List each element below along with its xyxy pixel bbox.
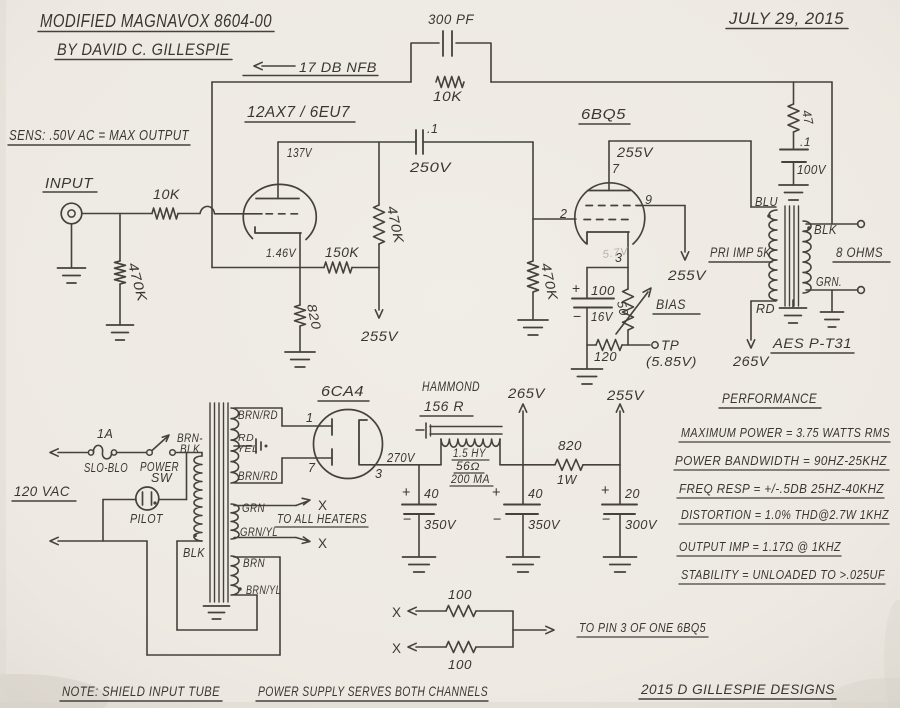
label 250V <box>409 160 453 175</box>
tube V1 plate bar <box>256 198 299 200</box>
label (5.85V) <box>646 354 697 369</box>
svg-text:BRN/RD: BRN/RD <box>238 469 278 483</box>
ground (speaker common) <box>821 312 844 327</box>
label 270V <box>386 451 416 465</box>
transformer T2 core <box>785 206 799 306</box>
wire X1 arrow <box>408 607 446 614</box>
svg-text:270V: 270V <box>386 451 416 465</box>
label 100 (R11) <box>448 588 472 602</box>
svg-text:20: 20 <box>624 487 640 501</box>
tube V1 plate lead <box>277 142 279 199</box>
svg-text:350V: 350V <box>528 517 561 532</box>
svg-text:NOTE: SHIELD INPUT TUBE: NOTE: SHIELD INPUT TUBE <box>62 683 220 699</box>
phase dot (rect heater) <box>238 587 241 590</box>
svg-text:MAXIMUM POWER = 3.75 WATTS RMS: MAXIMUM POWER = 3.75 WATTS RMS <box>681 425 890 440</box>
wire 47 to cap <box>793 132 795 149</box>
svg-text:156 R: 156 R <box>424 399 464 414</box>
svg-text:TO PIN 3 OF ONE 6BQ5: TO PIN 3 OF ONE 6BQ5 <box>579 620 706 635</box>
label .1 (zobel) <box>800 135 811 149</box>
transformer T1 core <box>210 403 228 602</box>
label 470K (6BQ5 grid) <box>538 262 561 303</box>
label DISTORTION <box>679 508 889 524</box>
label + (C5) <box>492 485 501 501</box>
tube V3 6CA4 envelope <box>314 410 383 479</box>
svg-text:YEL: YEL <box>237 443 258 455</box>
wire C6 to ground <box>619 514 621 556</box>
label TO PIN 3 OF ONE 6BQ5 <box>577 620 708 637</box>
label MAXIMUM POWER <box>679 425 890 442</box>
label SLO-BLO <box>84 461 128 475</box>
svg-text:+: + <box>572 280 581 296</box>
transformer T1 primary coil <box>194 456 202 541</box>
label TO ALL HEATERS <box>275 512 368 527</box>
phase dot (primary) <box>767 214 771 218</box>
svg-text:820: 820 <box>558 439 582 453</box>
svg-text:BY DAVID C. GILLESPIE: BY DAVID C. GILLESPIE <box>57 40 230 59</box>
resistor R3 470K plate zigzag <box>374 142 385 268</box>
label 300V (C6) <box>625 517 658 532</box>
subtitle text BY DAVID C. GILLESPIE <box>55 40 232 60</box>
wire cap2 tap <box>522 465 524 504</box>
label TP <box>661 338 679 353</box>
wire R12 to junction <box>476 646 513 648</box>
svg-text:7: 7 <box>308 461 316 475</box>
label 50 (pot) <box>614 300 631 317</box>
wire choke out to 820 <box>500 464 555 466</box>
svg-text:AES P-T31: AES P-T31 <box>772 336 852 351</box>
svg-text:STABILITY = UNLOADED TO >.025U: STABILITY = UNLOADED TO >.025UF <box>681 568 886 582</box>
svg-text:12AX7 / 6EU7: 12AX7 / 6EU7 <box>247 104 351 121</box>
wire pilot to mains low <box>103 500 136 542</box>
transformer T1 heater winding BRN <box>231 556 239 595</box>
wire 255V line to OPT primary <box>751 141 776 207</box>
svg-text:OUTPUT IMP = 1.17Ω @ 1KHZ: OUTPUT IMP = 1.17Ω @ 1KHZ <box>679 539 841 554</box>
label - (C5) <box>493 512 502 528</box>
svg-text:POWER BANDWIDTH = 90HZ-25KHZ: POWER BANDWIDTH = 90HZ-25KHZ <box>675 453 887 468</box>
svg-text:−: − <box>573 308 582 324</box>
label 100 <box>591 284 615 298</box>
svg-text:10K: 10K <box>433 89 463 104</box>
label RD <box>756 302 775 316</box>
label 137V <box>287 146 313 160</box>
svg-text:250V: 250V <box>409 160 453 175</box>
svg-text:SENS: .50V AC = MAX OUTPUT: SENS: .50V AC = MAX OUTPUT <box>9 128 190 144</box>
wire feedback loop box <box>411 43 491 82</box>
title text MODIFIED MAGNAVOX 8604-00 <box>38 10 274 32</box>
svg-text:1.5 HY: 1.5 HY <box>453 448 487 460</box>
ground (OPT core) <box>780 300 807 323</box>
label 100 (R12) <box>448 658 472 672</box>
svg-text:JULY 29, 2015: JULY 29, 2015 <box>728 9 844 28</box>
svg-text:300 PF: 300 PF <box>428 12 474 27</box>
wire 820 to ground <box>299 326 301 351</box>
capacitor C2 100uF plates <box>572 299 614 308</box>
wire C5 to ground <box>522 514 524 556</box>
svg-text:PILOT: PILOT <box>130 511 163 526</box>
svg-text:HAMMOND: HAMMOND <box>422 379 480 394</box>
svg-text:255V: 255V <box>606 387 645 403</box>
label 350V (C4) <box>424 517 457 532</box>
svg-text:−: − <box>602 512 611 528</box>
label 16V <box>591 310 614 324</box>
label 8 OHMS <box>833 245 890 262</box>
label GRN. <box>816 275 842 289</box>
wire BRN/YL bottom lead <box>234 594 257 596</box>
svg-text:150K: 150K <box>325 245 359 260</box>
label - (C6) <box>602 512 611 528</box>
label 255V (screen) <box>667 267 707 283</box>
label 20 (C6) <box>624 487 640 501</box>
capacitor C5 40uF plates <box>504 505 540 515</box>
svg-text:2015 D GILLESPIE DESIGNS: 2015 D GILLESPIE DESIGNS <box>640 681 835 697</box>
svg-text:3: 3 <box>375 467 382 481</box>
label 3 (pin) <box>615 251 622 265</box>
label 40 (C4) <box>424 487 439 501</box>
label 10K (NFB) <box>433 89 463 104</box>
wire C4 to ground <box>418 514 420 556</box>
svg-text:255V: 255V <box>667 267 707 283</box>
label BRN/RD (bottom) <box>238 469 278 483</box>
fuse F1 1A slo-blo <box>88 445 116 459</box>
lamp pilot <box>136 487 159 510</box>
wire V1 cathode lead <box>299 233 301 305</box>
choke L1 coil <box>441 439 500 465</box>
svg-text:6CA4: 6CA4 <box>321 383 364 400</box>
svg-text:265V: 265V <box>507 385 546 401</box>
capacitor C6 20uF plates <box>602 505 637 515</box>
svg-text:56Ω: 56Ω <box>456 461 480 473</box>
note 2015 D GILLESPIE DESIGNS <box>639 681 836 699</box>
label 470K (plate) <box>384 205 407 246</box>
label BLK <box>814 223 837 237</box>
label 255V (6BQ5 plate) <box>616 145 655 160</box>
svg-text:10K: 10K <box>153 187 181 202</box>
resistor R-NFB 10K zigzag <box>436 77 464 88</box>
label BLU <box>755 195 778 209</box>
svg-text:265V: 265V <box>732 353 770 369</box>
label 200 MA <box>450 474 493 486</box>
capacitor C3 .1 plates <box>780 150 808 163</box>
label BRN/RD (top) <box>238 408 278 422</box>
label 265V (B+) <box>507 385 546 401</box>
wire 265V riser <box>519 404 526 465</box>
label .1 (coupling) <box>427 122 438 136</box>
capacitor C1 .1 coupling plates <box>416 130 423 154</box>
note text SENS: .50V AC = MAX OUTPUT <box>8 128 190 145</box>
wire cap3 tap <box>619 465 621 504</box>
wire coupling to 6BQ5 grid <box>423 142 576 219</box>
label POWER SW <box>140 460 179 485</box>
label 156R <box>420 399 473 416</box>
label tube 12AX7/6EU7 <box>245 104 355 122</box>
label 120 <box>594 350 617 364</box>
wire NFB line left segment <box>212 81 411 83</box>
label X (GRN) <box>318 498 328 513</box>
label 820 <box>304 303 324 332</box>
resistor R12 100 zigzag <box>446 642 476 653</box>
svg-text:(5.85V): (5.85V) <box>646 354 697 369</box>
switch S1 power <box>147 435 176 455</box>
label 1 (pin) <box>306 411 313 425</box>
svg-text:100: 100 <box>448 588 472 602</box>
connector output terminal common <box>858 287 865 294</box>
tube V2 6BQ5 envelope <box>575 183 645 244</box>
wire NFB to cathode node <box>212 267 324 269</box>
svg-text:RD: RD <box>756 302 775 316</box>
svg-text:137V: 137V <box>287 146 313 160</box>
label BRN (rect) <box>243 556 265 570</box>
wire 470K to ground <box>119 284 121 324</box>
label 255V (B+) <box>606 387 645 403</box>
wire secondary BLK lead <box>806 223 858 225</box>
label AES P-T31 <box>771 336 854 353</box>
svg-text:16V: 16V <box>591 310 614 324</box>
wire B+ dropping arrow <box>375 268 382 319</box>
label 255V (V1 B+) <box>360 328 399 344</box>
tube V3 plate pin1 bar <box>331 419 333 435</box>
label 1W <box>557 473 577 487</box>
svg-text:BRN/RD: BRN/RD <box>238 408 278 422</box>
label PERFORMANCE <box>719 390 821 408</box>
svg-text:−: − <box>403 512 412 528</box>
ground (C5) <box>507 557 540 572</box>
svg-text:1: 1 <box>306 411 313 425</box>
ground (T1 core) <box>204 606 230 619</box>
label 3 (pin 6CA4) <box>375 467 382 481</box>
label PRI IMP 5K <box>709 245 772 262</box>
label tube 6CA4 <box>318 383 369 401</box>
svg-text:120: 120 <box>594 350 617 364</box>
wire X2 arrow <box>408 643 446 650</box>
label BRN/YL <box>246 583 281 597</box>
label YEL (tap) <box>237 443 258 455</box>
svg-text:BLU: BLU <box>755 195 778 209</box>
svg-text:255V: 255V <box>360 328 399 344</box>
label BRN-BLK <box>177 431 203 456</box>
label 300 PF <box>428 12 474 27</box>
label + (C6) <box>601 483 610 499</box>
label 100V <box>797 163 827 177</box>
wire V1 plate line <box>278 141 416 143</box>
svg-text:40: 40 <box>528 487 543 501</box>
resistor R2 470K shunt zigzag <box>115 261 126 284</box>
capacitor C-NFB 300PF plates <box>443 31 452 56</box>
svg-text:350V: 350V <box>424 517 457 532</box>
wire secondary GRN lead <box>806 289 858 291</box>
label 17 DB NFB <box>243 59 378 76</box>
wire GRN to ground <box>831 290 833 311</box>
wire BRN top lead <box>234 556 280 558</box>
svg-text:2: 2 <box>559 207 567 221</box>
note SHIELD INPUT TUBE <box>60 683 222 701</box>
potentiometer R7 wiper arrow <box>616 288 651 334</box>
label BLK (T1) <box>183 546 205 560</box>
svg-text:DISTORTION = 1.0% THD@2.7W 1KH: DISTORTION = 1.0% THD@2.7W 1KHZ <box>681 508 889 522</box>
label tube 6BQ5 <box>579 106 630 124</box>
note POWER SUPPLY <box>256 683 488 701</box>
transformer T2 secondary coil <box>803 221 811 293</box>
connector TP test point <box>652 342 658 348</box>
wire 255V riser <box>616 404 623 465</box>
tube V2 screen grid dashed <box>586 205 641 207</box>
label OUTPUT IMP <box>677 539 841 556</box>
label X (in1) <box>392 605 402 620</box>
connector J1 input jack <box>61 203 82 224</box>
potentiometer R7 50 zigzag <box>623 268 634 346</box>
svg-text:300V: 300V <box>625 517 658 532</box>
tube V1 12AX7 envelope <box>243 184 316 239</box>
label 1.5 HY <box>452 448 489 460</box>
label FREQ RESP <box>677 481 884 498</box>
label + (C4) <box>402 485 411 501</box>
connector output terminal hot <box>858 221 865 228</box>
resistor R11 100 zigzag <box>446 606 476 617</box>
wire pin3 cathode lead <box>359 464 441 466</box>
label POWER BANDWIDTH <box>674 453 889 470</box>
wire pin9 screen lead <box>641 206 689 261</box>
wire zobel cap to ground <box>793 162 795 184</box>
wire HV bottom lead <box>234 458 332 483</box>
wire 150K to B+ node <box>352 267 379 269</box>
svg-text:+: + <box>601 483 610 499</box>
svg-text:1W: 1W <box>557 473 577 487</box>
label HAMMOND <box>422 379 480 394</box>
wire NFB vertical to output tap <box>831 82 833 224</box>
ground (bias cap) <box>572 369 603 384</box>
ground (C4) <box>403 557 436 572</box>
svg-text:100: 100 <box>448 658 472 672</box>
svg-text:−: − <box>493 512 502 528</box>
label + (C2) <box>572 280 581 296</box>
wire cap top lead <box>586 268 588 299</box>
svg-text:X: X <box>392 605 402 620</box>
label 7 (pin) <box>612 162 620 176</box>
svg-text:100V: 100V <box>797 163 827 177</box>
tube V1 cathode <box>255 227 301 233</box>
svg-text:120 VAC: 120 VAC <box>14 483 70 499</box>
label 10K (input) <box>153 187 181 202</box>
svg-text:GRN.: GRN. <box>816 275 842 289</box>
svg-text:100: 100 <box>591 284 615 298</box>
wire zobel tap <box>793 82 795 104</box>
transformer T1 heater winding GRN <box>231 504 239 539</box>
label 56 ohm <box>454 461 484 473</box>
label - (C4) <box>403 512 412 528</box>
label 350V (C5) <box>528 517 561 532</box>
tube V1 grid dashed <box>266 213 302 215</box>
wire pin7 to 255V line <box>609 141 751 191</box>
svg-text:BIAS: BIAS <box>656 297 686 312</box>
svg-text:.1: .1 <box>800 135 811 149</box>
transformer T2 primary coil <box>769 210 777 300</box>
svg-text:FREQ RESP = +/-.5DB 25HZ-40KHZ: FREQ RESP = +/-.5DB 25HZ-40KHZ <box>679 481 884 496</box>
label 5.7V faint <box>602 245 631 261</box>
choke L1 frame <box>416 423 502 438</box>
svg-text:BLK: BLK <box>183 546 205 560</box>
wire hop to 12AX7 grid <box>215 213 263 215</box>
wire jack ground lead <box>71 224 73 267</box>
label STABILITY <box>679 568 886 584</box>
date text JULY 29, 2015 <box>726 9 848 29</box>
svg-text:MODIFIED MAGNAVOX 8604-00: MODIFIED MAGNAVOX 8604-00 <box>40 10 272 31</box>
wire jack to 10K <box>82 213 152 215</box>
svg-text:40: 40 <box>424 487 439 501</box>
svg-text:+: + <box>402 485 411 501</box>
ground (C6) <box>604 557 637 572</box>
transformer T1 HV winding <box>231 408 239 483</box>
wire cathode to bias node <box>587 232 628 268</box>
label 1.46V <box>266 246 296 260</box>
svg-text:SW: SW <box>151 471 173 485</box>
svg-text:1A: 1A <box>97 427 113 441</box>
resistor R5 150K zigzag <box>324 262 352 273</box>
tube V2 control grid dashed <box>584 219 630 221</box>
resistor R6 470K grid zigzag <box>528 219 539 319</box>
svg-text:200 MA: 200 MA <box>450 474 490 486</box>
wire R11 to junction <box>476 611 513 647</box>
resistor R1 10K series zigzag <box>152 208 178 219</box>
label 47 <box>799 109 816 127</box>
wire grid hop over NFB <box>200 206 215 213</box>
svg-text:17 DB NFB: 17 DB NFB <box>299 59 377 75</box>
svg-text:1.46V: 1.46V <box>266 246 296 260</box>
tube V3 cathode <box>359 420 367 464</box>
label RD (tap) <box>238 432 254 444</box>
svg-text:POWER SUPPLY SERVES BOTH CHANN: POWER SUPPLY SERVES BOTH CHANNELS <box>258 683 488 699</box>
svg-text:255V: 255V <box>616 145 655 160</box>
svg-text:7: 7 <box>612 162 620 176</box>
arrow 17DB NFB <box>254 62 295 69</box>
label GRN <box>242 501 265 515</box>
wire pilot tap <box>159 453 187 500</box>
label X (GRN/YL) <box>318 536 328 551</box>
svg-text:SLO-BLO: SLO-BLO <box>84 461 128 475</box>
wire combiner output arrow <box>513 626 554 633</box>
svg-text:TO ALL HEATERS: TO ALL HEATERS <box>277 512 367 526</box>
wire 820 to cap3 <box>583 464 620 466</box>
wire GRN/YL lead arrow <box>234 537 310 543</box>
label 1A <box>97 427 113 441</box>
label 470K (input) <box>125 261 150 304</box>
label 2 (pin) <box>559 207 567 221</box>
label BIAS <box>653 297 700 314</box>
label PILOT <box>130 511 163 526</box>
ground (V1 cathode) <box>285 352 315 367</box>
wire mains hot arrow <box>50 449 88 456</box>
wire NFB line right segment <box>491 81 832 83</box>
svg-text:BRN/YL: BRN/YL <box>246 583 281 597</box>
wire HV top lead <box>234 408 332 426</box>
wire cap1 tap <box>418 465 420 504</box>
resistor R4 820 cathode zigzag <box>295 305 306 326</box>
tube V2 plate bar <box>588 190 630 192</box>
svg-text:X: X <box>318 498 328 513</box>
svg-text:9: 9 <box>645 193 652 207</box>
resistor R9 47 zigzag <box>788 104 799 132</box>
svg-text:BRN: BRN <box>243 556 265 570</box>
label 9 (pin) <box>645 193 652 207</box>
svg-text:BLK: BLK <box>180 442 200 456</box>
svg-text:+: + <box>492 485 501 501</box>
wire cap bottom to ground <box>586 308 588 369</box>
wire mains low arrow <box>50 537 147 544</box>
label 120 VAC <box>12 483 76 501</box>
wire switch to primary <box>176 453 203 457</box>
svg-text:GRN: GRN <box>242 501 265 515</box>
label INPUT <box>43 176 97 192</box>
capacitor C4 40uF plates <box>402 505 436 515</box>
label - (C2) <box>573 308 582 324</box>
